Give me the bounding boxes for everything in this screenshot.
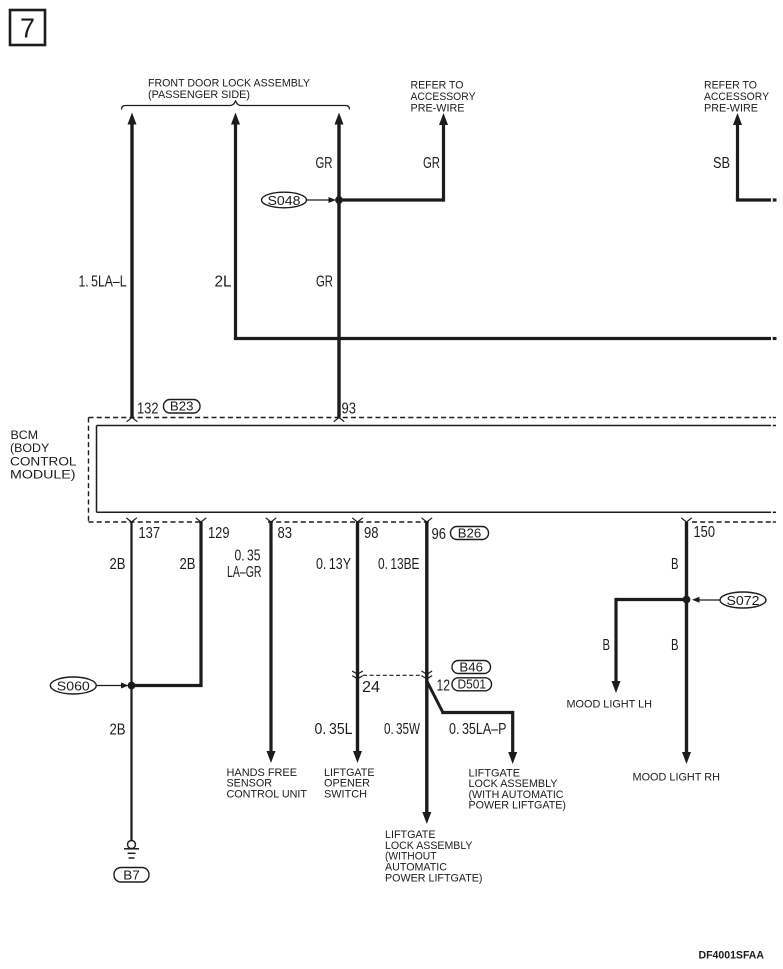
label LIFTGATE LOCK ASSEMBLY (WITHOUT AUTOMATIC POWER LIFTGATE) [385, 829, 483, 884]
svg-text:0. 13Y: 0. 13Y [316, 556, 351, 573]
svg-text:2B: 2B [110, 556, 126, 573]
label 0.35 LA-GR [227, 548, 262, 582]
svg-text:DF4001SFAA: DF4001SFAA [699, 950, 765, 962]
wire GR horizontal from S048 junction [339, 198, 444, 201]
in-line connector chevrons on wire 98 [352, 671, 363, 679]
wire 1.5LA-L vertical (pin 132 to front door lock) [128, 113, 137, 418]
junction node at S048 [336, 197, 343, 204]
svg-text:12: 12 [437, 678, 451, 695]
svg-text:(PASSENGER SIDE): (PASSENGER SIDE) [148, 89, 250, 101]
pin 132 label and connector B23 [137, 399, 200, 418]
svg-text:REFER TO: REFER TO [704, 79, 757, 91]
pin chevron 150 [681, 518, 692, 522]
svg-text:2L: 2L [215, 274, 232, 291]
wire B pin 150 to mood light RH [682, 522, 691, 764]
svg-text:CONTROL UNIT: CONTROL UNIT [227, 788, 308, 800]
zone number box 7 [10, 10, 45, 45]
label LIFTGATE OPENER SWITCH [324, 767, 375, 801]
svg-text:7: 7 [20, 13, 35, 44]
svg-text:83: 83 [278, 525, 293, 542]
svg-text:B: B [671, 556, 679, 573]
ground connector B7 [114, 867, 149, 882]
svg-text:SB: SB [713, 155, 730, 172]
svg-text:96: 96 [432, 526, 447, 543]
svg-text:B: B [603, 637, 611, 654]
pin chevron 132 [127, 418, 138, 422]
wire GR vertical (pin 93 to front door lock) [335, 113, 344, 418]
label HANDS FREE SENSOR CONTROL UNIT [227, 767, 308, 801]
svg-text:CONTROL: CONTROL [10, 454, 77, 468]
junction node at S072 [683, 596, 690, 603]
dashed connector line B46/D501 [363, 674, 422, 676]
svg-text:2B: 2B [180, 556, 196, 573]
svg-text:LA–GR: LA–GR [227, 564, 262, 581]
svg-text:2B: 2B [110, 722, 126, 739]
pin 96 label and connector B26 [432, 526, 489, 544]
svg-text:137: 137 [139, 525, 161, 542]
svg-text:129: 129 [208, 525, 230, 542]
pin chevron 83 [266, 518, 277, 522]
svg-text:98: 98 [364, 525, 379, 542]
svg-text:PRE-WIRE: PRE-WIRE [411, 102, 465, 114]
svg-text:93: 93 [342, 401, 357, 418]
svg-text:1. 5LA–L: 1. 5LA–L [79, 274, 127, 291]
svg-text:B26: B26 [458, 526, 482, 541]
label BCM (BODY CONTROL MODULE) [10, 428, 77, 482]
svg-text:REFER TO: REFER TO [411, 79, 464, 91]
svg-text:24: 24 [362, 679, 380, 696]
svg-text:0. 35: 0. 35 [235, 548, 261, 565]
wire GR vertical to accessory pre-wire [439, 113, 448, 202]
svg-text:B7: B7 [123, 867, 140, 882]
junction node at S060 [128, 682, 135, 689]
svg-text:B46: B46 [459, 660, 483, 675]
svg-text:D501: D501 [458, 677, 487, 692]
svg-text:B: B [671, 637, 679, 654]
svg-text:B23: B23 [170, 399, 194, 414]
svg-text:0. 35W: 0. 35W [384, 721, 420, 738]
pin chevron 137 [126, 518, 137, 522]
svg-text:150: 150 [694, 524, 716, 541]
pin 12 label and connector D501 [437, 677, 492, 695]
splice S072 [692, 592, 766, 608]
label LIFTGATE LOCK ASSEMBLY (WITH AUTOMATIC POWER LIFTGATE) [469, 767, 567, 811]
pin chevron 98 [352, 518, 363, 522]
svg-text:BCM: BCM [11, 428, 39, 442]
wire 2B pin 137 to ground [130, 522, 132, 841]
brace under front door lock assembly [122, 101, 350, 110]
svg-text:S072: S072 [727, 593, 760, 608]
label FRONT DOOR LOCK ASSEMBLY (PASSENGER SIDE) [148, 78, 310, 102]
svg-text:PRE-WIRE: PRE-WIRE [704, 102, 758, 114]
svg-text:POWER LIFTGATE): POWER LIFTGATE) [385, 872, 483, 884]
wire 0.35W pin 96 to liftgate lock assembly (without) [422, 522, 431, 824]
svg-text:S048: S048 [268, 193, 301, 208]
splice S060 [50, 677, 128, 694]
svg-text:(BODY: (BODY [10, 441, 49, 455]
wire SB to accessory pre-wire (right) [733, 113, 777, 200]
pin chevron 96 [422, 518, 433, 522]
svg-text:FRONT DOOR LOCK ASSEMBLY: FRONT DOOR LOCK ASSEMBLY [148, 78, 310, 90]
svg-text:GR: GR [316, 155, 333, 172]
svg-text:SWITCH: SWITCH [324, 788, 367, 800]
svg-text:S060: S060 [57, 678, 90, 693]
wire 0.35LA-GR pin 83 to hands free sensor control unit [267, 522, 276, 763]
svg-text:132: 132 [137, 401, 159, 418]
label REFER TO ACCESSORY PRE-WIRE (right) [704, 79, 769, 114]
svg-text:MODULE): MODULE) [10, 468, 76, 482]
BCM outer dashed box [89, 418, 777, 523]
connector B46 [452, 660, 491, 675]
ground symbol [124, 841, 139, 859]
wire B branch to mood light LH [612, 598, 689, 693]
wire 0.35LA-P branch to liftgate lock assembly (with) [427, 681, 517, 764]
svg-text:MOOD LIGHT RH: MOOD LIGHT RH [633, 772, 721, 784]
wire 2L vertical and horizontal to right edge [231, 113, 777, 339]
svg-text:MOOD LIGHT LH: MOOD LIGHT LH [567, 698, 653, 710]
pin chevron 129 [196, 518, 207, 522]
splice S048 [262, 192, 337, 208]
in-line connector chevrons on wire 96 [422, 671, 433, 679]
svg-text:0. 35L: 0. 35L [315, 721, 353, 738]
svg-text:0. 35LA–P: 0. 35LA–P [449, 721, 507, 738]
label REFER TO ACCESSORY PRE-WIRE (left) [411, 79, 476, 114]
svg-text:GR: GR [316, 274, 333, 291]
svg-text:GR: GR [423, 155, 440, 172]
BCM inner solid box [97, 426, 777, 513]
wire 0.13Y pin 98 to liftgate opener switch [353, 522, 362, 763]
svg-text:POWER LIFTGATE): POWER LIFTGATE) [469, 800, 567, 812]
svg-text:0. 13BE: 0. 13BE [378, 556, 420, 573]
pin chevron 93 [334, 418, 345, 422]
wire 2B pin 129 down and left to splice [132, 522, 203, 686]
svg-text:ACCESSORY: ACCESSORY [411, 91, 476, 103]
svg-text:ACCESSORY: ACCESSORY [704, 91, 769, 103]
